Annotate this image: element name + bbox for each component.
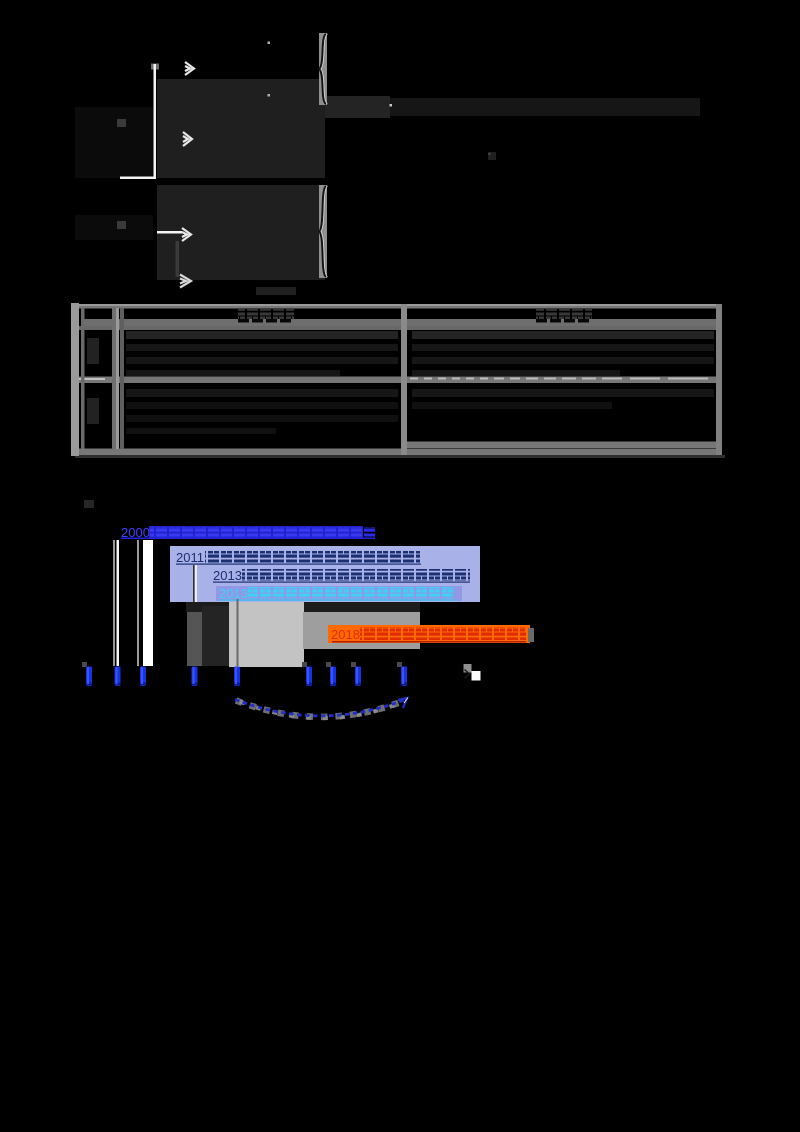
right outer border — [716, 304, 722, 455]
tiny gray block — [464, 664, 472, 673]
row1 col3 text lines — [412, 331, 714, 376]
row1 col2 text lines — [126, 331, 398, 376]
marker 7 — [330, 667, 336, 687]
gray strip under box around line3 — [187, 604, 202, 666]
box line1 underline — [176, 564, 421, 565]
marker 8 — [355, 667, 361, 687]
left node label 1 — [117, 119, 126, 127]
orange line underline — [332, 641, 526, 643]
marker stub 6 — [302, 662, 307, 667]
bracket cap — [151, 64, 159, 70]
marker 6 — [306, 667, 312, 687]
marker 5 — [234, 667, 240, 687]
row separator glint right — [410, 378, 708, 380]
svg-text:2018: 2018 — [331, 627, 360, 642]
table bottom border — [71, 449, 721, 456]
orange highlight — [328, 625, 530, 643]
curly brace 1 — [319, 33, 328, 105]
box line1 CJK — [205, 551, 420, 563]
box line3 underline — [219, 600, 455, 601]
header text col3 — [536, 309, 592, 319]
orange line CJK — [360, 627, 526, 640]
faint speck block — [488, 152, 496, 160]
svg-text:2013: 2013 — [213, 568, 242, 583]
marker 9 — [401, 667, 407, 687]
header bottom border — [71, 326, 721, 330]
dark band under box — [186, 602, 420, 612]
drop line 1 gray — [113, 540, 115, 666]
tiny dot 3 — [390, 104, 393, 107]
col1 left inner border — [81, 308, 85, 449]
col3 inner bottom border — [401, 442, 721, 449]
row2 col3 text lines — [412, 389, 714, 409]
tiny white block — [472, 671, 481, 681]
blue headline underline — [121, 538, 373, 540]
dark strip — [202, 606, 229, 666]
timeline markers — [82, 662, 407, 686]
faint band extension — [325, 96, 390, 118]
faint dot text — [84, 500, 94, 508]
blue headline tail chars — [364, 527, 376, 539]
col2/col3 divider — [401, 304, 407, 455]
drop line 2 gray — [137, 540, 139, 666]
drop line 3 white — [195, 565, 197, 666]
box line3 CJK — [248, 587, 455, 599]
arrow 1 — [185, 62, 194, 75]
arrow 3 — [182, 228, 191, 241]
arrow 4 — [180, 275, 191, 288]
gray block B — [303, 612, 420, 649]
drop line 2 white band — [143, 540, 153, 666]
orange right gray tail — [528, 628, 534, 642]
left node label 2 — [117, 221, 126, 229]
drop line 3 dark — [193, 565, 195, 666]
col1 row1 vertical label — [87, 338, 99, 364]
col1 row2 vertical label — [87, 398, 99, 424]
marker 2 — [115, 667, 121, 687]
faint band tail — [390, 98, 700, 116]
arrow 2 — [183, 132, 192, 146]
connector line to arrow 3 — [157, 231, 182, 234]
col1 right divider — [112, 308, 116, 449]
faint caption above table — [256, 287, 296, 295]
box line3 band — [216, 586, 462, 601]
bottom shadow — [75, 455, 725, 458]
dashed arc shadow — [236, 701, 404, 717]
marker 1 — [86, 667, 92, 687]
left node box 1 — [75, 107, 153, 178]
marker stub 7 — [326, 662, 331, 667]
left node box 2 — [75, 215, 153, 240]
svg-text:2011: 2011 — [176, 550, 204, 565]
tiny dot 2 — [268, 94, 271, 97]
header gray band — [84, 319, 717, 326]
box line2 underline — [213, 582, 470, 583]
svg-text:2013: 2013 — [219, 586, 248, 601]
table top border — [71, 304, 721, 306]
left outer border — [71, 303, 79, 456]
row2 col2 text lines — [126, 389, 398, 434]
curly brace 2 — [319, 185, 328, 278]
marker stub 8 — [351, 662, 356, 667]
drop line 1 white — [117, 540, 120, 666]
violet box — [170, 546, 480, 602]
tiny dot 1 — [268, 42, 271, 45]
blue headline highlight band — [149, 526, 363, 539]
marker stub 9 — [397, 662, 402, 667]
leader strip to arrow 4 — [176, 241, 180, 277]
faint text block lower branch — [157, 185, 325, 280]
tiny dark chevron — [465, 670, 470, 679]
box line2 CJK — [242, 569, 470, 581]
marker 3 — [140, 667, 146, 687]
dashed arc — [235, 700, 404, 716]
header text col2 — [238, 309, 294, 319]
row separator — [71, 377, 721, 384]
light gray block A — [229, 602, 304, 667]
row separator glint left — [75, 378, 105, 380]
drop line 4 — [237, 599, 239, 666]
bracket horizontal foot — [120, 177, 156, 180]
marker 4 — [192, 667, 198, 687]
marker stub 1 — [82, 662, 87, 667]
faint text block upper branch — [157, 79, 325, 178]
arc arrowhead — [398, 698, 407, 708]
bracket vertical line — [154, 64, 157, 178]
blue headline CJK on highlight — [150, 527, 362, 539]
